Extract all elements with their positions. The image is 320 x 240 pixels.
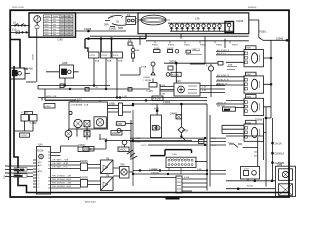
svg-text:A/B W-R: A/B W-R bbox=[217, 105, 225, 108]
svg-text:19038: 19038 bbox=[84, 27, 92, 31]
svg-text:#50M4: #50M4 bbox=[143, 77, 150, 79]
svg-text:P/R .DONGO. +1/B: P/R .DONGO. +1/B bbox=[52, 176, 71, 178]
svg-text:ACC: ACC bbox=[38, 164, 43, 167]
svg-text:24051A: 24051A bbox=[151, 172, 159, 175]
svg-text:2CA: 2CA bbox=[84, 104, 89, 107]
svg-text:7B: 7B bbox=[106, 174, 109, 178]
svg-text:2A#01: 2A#01 bbox=[170, 112, 178, 116]
svg-text:P/R .DONGO. +1/B: P/R .DONGO. +1/B bbox=[52, 183, 71, 185]
svg-text:A/C R-SB 1.5: A/C R-SB 1.5 bbox=[217, 49, 230, 52]
svg-text:A/E GN .75: A/E GN .75 bbox=[217, 82, 228, 85]
svg-text:E4B: E4B bbox=[247, 74, 252, 76]
svg-text:F1B/3: F1B/3 bbox=[168, 45, 175, 47]
svg-text:7B: 7B bbox=[106, 157, 109, 161]
svg-text:22BP 7.1: 22BP 7.1 bbox=[192, 49, 202, 51]
svg-text:24/DC: 24/DC bbox=[112, 131, 119, 135]
svg-text:24151: 24151 bbox=[152, 169, 158, 171]
svg-text:Y-1B0: Y-1B0 bbox=[30, 121, 38, 125]
svg-text:S/N: S/N bbox=[38, 143, 42, 147]
svg-text:Y-105: Y-105 bbox=[160, 85, 166, 87]
svg-text:14/C2: 14/C2 bbox=[135, 142, 141, 144]
svg-text:3DA: 3DA bbox=[118, 60, 123, 63]
svg-text:F1B/8-24: F1B/8-24 bbox=[248, 7, 257, 9]
svg-text:19033: 19033 bbox=[236, 19, 244, 23]
svg-text:#709: #709 bbox=[182, 129, 188, 133]
svg-text:GN-W .75: GN-W .75 bbox=[217, 103, 227, 105]
svg-text:S0TAB: S0TAB bbox=[172, 73, 179, 76]
svg-text:A/9B: A/9B bbox=[109, 102, 115, 106]
svg-text:F1C8: F1C8 bbox=[90, 55, 96, 57]
svg-text:ECM: ECM bbox=[38, 149, 44, 153]
svg-text:14/B: 14/B bbox=[197, 169, 202, 171]
svg-text:2Y/DC: 2Y/DC bbox=[21, 135, 28, 137]
svg-text:Y-105: Y-105 bbox=[146, 89, 153, 93]
svg-text:NTR B.4: NTR B.4 bbox=[15, 176, 24, 178]
svg-text:NTR .P.1/2: NTR .P.1/2 bbox=[15, 170, 25, 172]
svg-text:7#1B: 7#1B bbox=[172, 154, 178, 156]
svg-text:F1B/7: F1B/7 bbox=[232, 45, 239, 47]
svg-text:B4X1 L-2/B: B4X1 L-2/B bbox=[46, 96, 57, 98]
svg-text:3DA: 3DA bbox=[107, 60, 112, 63]
svg-text:A23: A23 bbox=[176, 79, 181, 83]
svg-text:L/R .WET... B-(R: L/R .WET... B-(R bbox=[52, 163, 69, 165]
svg-text:CS001A: CS001A bbox=[275, 152, 285, 156]
svg-text:4-1/B: 4-1/B bbox=[184, 177, 190, 179]
svg-text:P/R .DONGO. B-(R: P/R .DONGO. B-(R bbox=[52, 186, 71, 188]
svg-text:T#1 1: T#1 1 bbox=[228, 143, 234, 145]
svg-text:L/R .WET... P#1: L/R .WET... P#1 bbox=[52, 167, 68, 169]
svg-text:AT/K: AT/K bbox=[38, 170, 43, 173]
svg-text:G8B: G8B bbox=[277, 162, 282, 166]
svg-text:K9B: K9B bbox=[135, 50, 140, 52]
svg-text:24/DC: 24/DC bbox=[84, 147, 91, 151]
svg-text:Y-1B3: Y-1B3 bbox=[21, 111, 29, 115]
svg-text:CON AGBA: CON AGBA bbox=[71, 104, 83, 107]
svg-text:23051: 23051 bbox=[100, 137, 108, 141]
svg-text:AB23-10/24: AB23-10/24 bbox=[85, 201, 96, 204]
svg-text:23046: 23046 bbox=[276, 36, 284, 40]
svg-text:3DA: 3DA bbox=[95, 60, 100, 63]
svg-text:E2001: E2001 bbox=[247, 185, 254, 187]
svg-text:4/9B: 4/9B bbox=[62, 61, 68, 65]
svg-text:24/DC: 24/DC bbox=[78, 143, 85, 147]
svg-text:23006: 23006 bbox=[255, 118, 263, 122]
svg-text:2903B: 2903B bbox=[169, 59, 177, 63]
svg-text:4/B: 4/B bbox=[128, 40, 132, 42]
svg-text:1/1: 1/1 bbox=[127, 13, 131, 17]
svg-text:D2008: D2008 bbox=[80, 176, 88, 180]
svg-text:P/R .DONGO. B-(R: P/R .DONGO. B-(R bbox=[52, 179, 71, 181]
svg-text:110: 110 bbox=[12, 28, 17, 32]
svg-text:F1C8: F1C8 bbox=[113, 55, 119, 57]
svg-text:14/C1: 14/C1 bbox=[135, 138, 141, 140]
svg-text:T-1/B: T-1/B bbox=[160, 94, 165, 96]
svg-text:L-1/B: L-1/B bbox=[122, 96, 127, 98]
svg-text:D2006: D2006 bbox=[80, 159, 88, 163]
svg-text:13004: 13004 bbox=[163, 100, 171, 104]
svg-text:4#9A: 4#9A bbox=[141, 66, 147, 69]
svg-text:A/D R 1.5: A/D R 1.5 bbox=[217, 52, 226, 55]
svg-text:E2B: E2B bbox=[247, 48, 252, 50]
svg-text:24/DC: 24/DC bbox=[119, 148, 126, 152]
svg-text:K9/DB: K9/DB bbox=[153, 97, 161, 101]
svg-text:78A: 78A bbox=[120, 163, 125, 167]
svg-text:A2B: A2B bbox=[154, 107, 159, 111]
svg-text:F1B/6: F1B/6 bbox=[216, 45, 223, 47]
svg-text:F1B/2: F1B/2 bbox=[152, 45, 159, 47]
svg-text:F1B/5: F1B/5 bbox=[200, 45, 207, 47]
svg-text:D8CW: D8CW bbox=[167, 48, 174, 50]
svg-text:24/DC: 24/DC bbox=[45, 106, 52, 108]
svg-text:E4B: E4B bbox=[247, 122, 252, 124]
svg-text:28A: 28A bbox=[104, 23, 109, 27]
svg-text:2A/1A: 2A/1A bbox=[275, 141, 282, 145]
svg-text:S2C: S2C bbox=[38, 162, 43, 164]
svg-text:198B: 198B bbox=[117, 124, 123, 126]
svg-text:F1C8: F1C8 bbox=[102, 55, 108, 57]
svg-text:# NONE: # NONE bbox=[143, 80, 152, 82]
svg-text:19/CB: 19/CB bbox=[33, 54, 35, 60]
svg-text:4./B: 4./B bbox=[202, 86, 206, 88]
svg-text:C-80: C-80 bbox=[57, 38, 63, 42]
svg-text:13A: 13A bbox=[195, 16, 200, 20]
svg-text:15/6B: 15/6B bbox=[109, 27, 116, 31]
svg-text:D88B: D88B bbox=[154, 48, 160, 50]
svg-text:S B4X2: S B4X2 bbox=[75, 99, 83, 101]
svg-text:F1B/1: F1B/1 bbox=[260, 30, 267, 34]
svg-text:24/DC 10-1B: 24/DC 10-1B bbox=[12, 7, 24, 9]
svg-text:6/3B: 6/3B bbox=[228, 65, 233, 67]
svg-text:F1B/4: F1B/4 bbox=[184, 45, 191, 47]
svg-text:L/R .WET... #1/B: L/R .WET... #1/B bbox=[52, 160, 69, 162]
svg-text:14/C3: 14/C3 bbox=[141, 145, 147, 147]
svg-text:B 400: B 400 bbox=[26, 67, 33, 71]
svg-text:2/D4: 2/D4 bbox=[244, 169, 249, 171]
svg-text:B/D BL-R .75: B/D BL-R .75 bbox=[217, 79, 230, 81]
svg-text:A/C R-SB .75: A/C R-SB .75 bbox=[217, 74, 230, 77]
svg-text:4./B: 4./B bbox=[202, 90, 206, 92]
svg-text:E2B: E2B bbox=[247, 97, 252, 99]
